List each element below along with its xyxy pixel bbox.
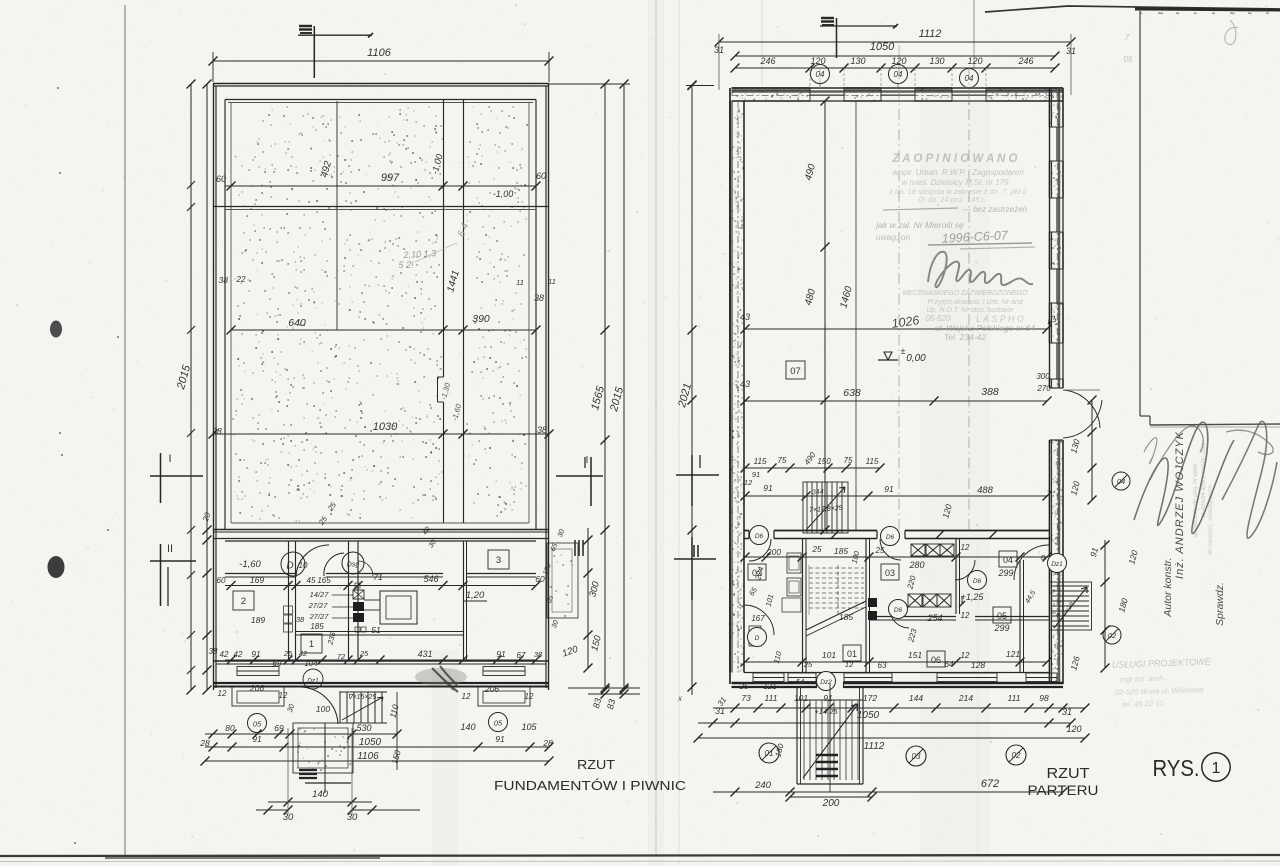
svg-text:344: 344 [812, 489, 824, 497]
svg-text:200: 200 [822, 798, 840, 809]
svg-text:PARTERU: PARTERU [1028, 782, 1099, 798]
svg-text:997: 997 [381, 172, 400, 184]
svg-text:38: 38 [219, 275, 229, 285]
svg-text:1030: 1030 [373, 421, 398, 433]
svg-text:D6: D6 [886, 534, 895, 541]
svg-text:640: 640 [288, 317, 306, 329]
svg-text:189: 189 [251, 615, 265, 625]
svg-text:172: 172 [863, 693, 877, 703]
svg-text:270: 270 [1036, 384, 1051, 393]
svg-text:07: 07 [790, 366, 801, 377]
svg-text:101: 101 [822, 650, 836, 660]
svg-text:431: 431 [417, 649, 432, 659]
svg-text:1050: 1050 [857, 710, 880, 721]
svg-text:151: 151 [908, 650, 922, 660]
svg-text:25: 25 [875, 546, 885, 555]
svg-text:D: D [755, 635, 760, 642]
svg-text:1112: 1112 [864, 741, 885, 752]
svg-text:D6: D6 [755, 533, 764, 540]
svg-text:130: 130 [850, 56, 865, 66]
svg-text:28: 28 [542, 738, 553, 748]
svg-text:∇×15×25: ∇×15×25 [348, 693, 377, 701]
svg-text:60: 60 [535, 574, 545, 584]
svg-text:167: 167 [751, 614, 765, 623]
svg-text:12: 12 [961, 651, 970, 660]
svg-text:75: 75 [778, 456, 787, 465]
svg-text:D6: D6 [894, 607, 903, 614]
svg-text:91: 91 [496, 649, 506, 659]
svg-text:Up. N.O.T. Nr obsł. budowle: Up. N.O.T. Nr obsł. budowle [927, 307, 1014, 314]
svg-text:10: 10 [299, 561, 308, 570]
svg-text:1106: 1106 [367, 47, 392, 59]
svg-text:60: 60 [217, 576, 226, 585]
svg-text:RYS.: RYS. [1153, 755, 1200, 781]
svg-text:1,20: 1,20 [466, 590, 485, 601]
svg-text:165: 165 [317, 576, 331, 585]
svg-text:12: 12 [525, 692, 534, 701]
svg-text:638: 638 [843, 387, 861, 399]
svg-text:I: I [586, 455, 589, 466]
svg-text:60: 60 [536, 171, 546, 181]
svg-text:jak w zal. Nr Mierośl sę: jak w zal. Nr Mierośl sę [875, 220, 964, 230]
svg-text:144: 144 [909, 693, 923, 703]
svg-text:38: 38 [296, 615, 305, 624]
svg-text:120: 120 [1066, 724, 1081, 734]
svg-text:246: 246 [759, 56, 775, 66]
svg-text:130: 130 [929, 56, 944, 66]
svg-text:51: 51 [371, 625, 381, 635]
svg-text:-1,60: -1,60 [239, 559, 261, 570]
svg-text:206: 206 [249, 683, 264, 693]
svg-text:91: 91 [763, 483, 773, 493]
svg-text:299: 299 [997, 568, 1013, 578]
svg-text:05: 05 [1124, 55, 1133, 64]
svg-text:111: 111 [1008, 693, 1021, 703]
svg-text:1112: 1112 [919, 28, 942, 40]
svg-text:12: 12 [961, 611, 970, 620]
svg-text:101: 101 [794, 693, 808, 703]
svg-text:91: 91 [823, 693, 833, 703]
svg-text:05: 05 [494, 719, 503, 728]
svg-text:25: 25 [803, 660, 813, 669]
svg-text:03: 03 [885, 568, 895, 578]
svg-text:tel. 49-22-11: tel. 49-22-11 [1122, 699, 1164, 709]
svg-text:7: 7 [1125, 33, 1130, 42]
svg-text:672: 672 [981, 778, 999, 790]
svg-text:31: 31 [715, 706, 725, 716]
svg-text:12: 12 [961, 543, 970, 552]
svg-text:1106: 1106 [357, 751, 379, 762]
svg-text:91: 91 [252, 734, 262, 744]
svg-text:98: 98 [1039, 693, 1049, 703]
svg-text:530: 530 [356, 723, 371, 733]
svg-text:43: 43 [740, 379, 750, 389]
svg-text:105: 105 [521, 722, 537, 732]
svg-text:±: ± [901, 346, 906, 356]
svg-text:140: 140 [312, 789, 329, 800]
svg-text:115: 115 [754, 457, 767, 466]
svg-text:-1,00: -1,00 [493, 189, 514, 199]
svg-text:75: 75 [844, 456, 853, 465]
svg-text:140: 140 [460, 722, 475, 732]
svg-text:121: 121 [1006, 649, 1020, 659]
svg-text:1: 1 [309, 639, 314, 650]
svg-text:II: II [167, 543, 173, 555]
svg-text:14/27: 14/27 [310, 590, 330, 599]
svg-text:43: 43 [740, 312, 750, 322]
svg-text:120: 120 [967, 56, 982, 66]
svg-text:+1,25: +1,25 [961, 592, 985, 602]
svg-text:169: 169 [250, 575, 264, 585]
svg-text:100: 100 [316, 704, 330, 714]
svg-text:05: 05 [997, 611, 1007, 621]
svg-text:240: 240 [754, 780, 772, 791]
svg-text:1: 1 [1212, 760, 1221, 777]
svg-text:488: 488 [977, 485, 994, 496]
svg-text:05: 05 [253, 720, 262, 729]
svg-text:Inż. ANDRZEJ WOJCZYK: Inż. ANDRZEJ WOJCZYK [1174, 431, 1186, 579]
svg-text:Przyjęto dnia ust. i Urb. Nr a: Przyjęto dnia ust. i Urb. Nr and [927, 299, 1023, 306]
svg-text:111: 111 [765, 693, 778, 703]
svg-text:25: 25 [812, 545, 822, 554]
svg-text:73: 73 [741, 693, 751, 703]
svg-text:38: 38 [534, 293, 544, 303]
svg-text:42: 42 [234, 650, 243, 659]
svg-text:91: 91 [495, 734, 505, 744]
svg-text:45: 45 [307, 576, 316, 585]
svg-text:O. dz. 24 poz. 145 r.: O. dz. 24 poz. 145 r. [918, 195, 986, 204]
svg-text:w mieś. Dzielnicy M.St. nr 179: w mieś. Dzielnicy M.St. nr 179 [901, 178, 1009, 187]
svg-text:214: 214 [958, 693, 973, 703]
svg-text:60: 60 [216, 174, 226, 184]
svg-text:D6: D6 [973, 578, 982, 585]
svg-text:91: 91 [884, 484, 894, 494]
svg-text:D: D [286, 561, 293, 572]
svg-text:12: 12 [462, 692, 471, 701]
svg-text:2: 2 [241, 596, 246, 607]
svg-text:01: 01 [847, 649, 857, 659]
svg-text:388: 388 [981, 386, 999, 398]
svg-text:246: 246 [1017, 56, 1033, 66]
svg-text:150: 150 [817, 457, 831, 466]
svg-text:uwag, on: uwag, on [876, 232, 911, 242]
svg-text:299: 299 [993, 623, 1009, 633]
svg-text:12: 12 [218, 689, 227, 698]
svg-text:I: I [168, 453, 171, 465]
svg-text:80: 80 [225, 723, 235, 733]
svg-text:185: 185 [834, 546, 848, 556]
svg-text:Dz1: Dz1 [1051, 561, 1063, 568]
svg-text:546: 546 [423, 574, 438, 584]
svg-text:— bez zastrzeżeń: — bez zastrzeżeń [962, 205, 1028, 214]
svg-text:42: 42 [220, 650, 229, 659]
svg-text:0,00: 0,00 [906, 353, 926, 364]
svg-text:71: 71 [373, 572, 383, 582]
svg-text:MECENASKIEGO ZATWIERDZONEGO: MECENASKIEGO ZATWIERDZONEGO [902, 290, 1028, 297]
svg-text:185: 185 [310, 622, 324, 631]
svg-text:390: 390 [472, 313, 490, 325]
svg-text:Tel. 234-42: Tel. 234-42 [944, 332, 986, 342]
svg-text:05-520: 05-520 [926, 314, 951, 323]
svg-text:27/27: 27/27 [309, 612, 330, 621]
svg-text:27/27: 27/27 [308, 601, 329, 610]
svg-text:3: 3 [496, 555, 501, 566]
svg-text:206: 206 [484, 684, 499, 694]
svg-text:06: 06 [931, 655, 941, 665]
svg-text:185: 185 [839, 612, 853, 622]
svg-text:115: 115 [866, 457, 879, 466]
svg-text:11: 11 [548, 277, 556, 286]
svg-text:1050: 1050 [870, 41, 895, 53]
svg-text:12: 12 [845, 660, 854, 669]
svg-text:Sprawdz.: Sprawdz. [1214, 582, 1226, 626]
svg-text:Z A O P I N I O W A N O: Z A O P I N I O W A N O [891, 153, 1017, 165]
svg-text:25: 25 [739, 682, 749, 691]
svg-text:280: 280 [908, 560, 924, 570]
svg-text:11: 11 [516, 278, 524, 287]
svg-text:121: 121 [763, 682, 776, 691]
svg-text:w spr. Urban. R.W.P. i Zagospo: w spr. Urban. R.W.P. i Zagospodareń [892, 168, 1024, 177]
svg-text:5 2!: 5 2! [398, 260, 414, 270]
svg-text:RZUT: RZUT [577, 757, 615, 772]
svg-text:RZUT: RZUT [1047, 765, 1090, 782]
svg-text:12: 12 [279, 691, 288, 700]
svg-text:Dz1: Dz1 [307, 678, 319, 685]
svg-text:04: 04 [894, 70, 903, 79]
svg-text:Dsg: Dsg [347, 562, 360, 569]
svg-text:254: 254 [926, 613, 942, 623]
svg-text:300: 300 [1036, 372, 1050, 381]
svg-text:12: 12 [744, 478, 753, 487]
svg-text:02: 02 [1108, 631, 1117, 640]
svg-text:mgr inż. arch.: mgr inż. arch. [1120, 673, 1166, 684]
svg-text:1050: 1050 [359, 737, 382, 748]
svg-text:FUNDAMENTÓW I PIWNIC: FUNDAMENTÓW I PIWNIC [494, 778, 686, 793]
svg-text:31: 31 [1062, 707, 1072, 717]
svg-text:91: 91 [752, 470, 760, 479]
svg-text:Autor konstr.: Autor konstr. [1162, 557, 1174, 617]
svg-text:69: 69 [274, 723, 284, 733]
svg-text:54: 54 [796, 677, 804, 686]
